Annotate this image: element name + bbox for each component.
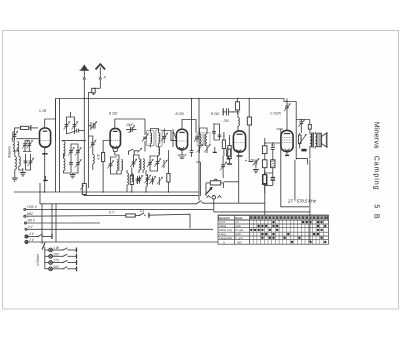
title Minerva Camping 5 B — [372, 122, 379, 219]
potentiometer P1 (volume) — [206, 179, 224, 185]
wire mid det — [206, 183, 224, 188]
trimmer C28 (top right) — [284, 102, 290, 113]
capacitor C29 (tone, trimmer) — [298, 120, 304, 129]
svg-text:270: 270 — [52, 259, 59, 263]
ground G4 — [180, 157, 185, 159]
speaker LS — [317, 133, 328, 147]
wire cluster B top nets — [67, 112, 77, 134]
svg-text:10pF: 10pF — [126, 123, 134, 127]
svg-text:B 255: B 255 — [176, 112, 185, 116]
svg-text:200: 200 — [52, 252, 59, 256]
wire second drop — [59, 99, 61, 193]
resistor R17 (cathode) — [227, 149, 231, 159]
node bus junctions — [84, 98, 239, 100]
capacitor C19 — [190, 99, 194, 158]
wire mixer nets — [111, 151, 158, 174]
tube B262 output driver — [233, 131, 245, 152]
lamp row2 — [45, 252, 77, 258]
trimmer C1 — [12, 131, 18, 141]
wire speaker loop — [284, 99, 310, 243]
resistor R1 (grid stopper, horizontal) — [17, 125, 38, 131]
wire tube3 bottom — [178, 150, 187, 155]
coil T2 secondary — [158, 147, 159, 156]
wire left of tube5 — [277, 129, 310, 207]
trimmer C2 — [22, 141, 28, 150]
coil L13 — [131, 173, 133, 182]
wire grid line tube1 — [16, 138, 38, 140]
switch S1 on rail5 — [28, 234, 52, 239]
svg-text:250: 250 — [223, 119, 230, 123]
output transformer T4 — [310, 129, 317, 159]
trimmer C10 — [75, 147, 81, 156]
resistor R5 — [222, 136, 225, 156]
tube B262 (mixer) — [110, 128, 120, 151]
node mid junctions — [44, 101, 302, 196]
trimmer C17 — [147, 159, 153, 167]
wire mid connector — [265, 168, 273, 177]
capacitor C11 — [69, 159, 73, 168]
wire det net — [200, 124, 230, 140]
wire drops x52 x56 — [52, 204, 56, 242]
trimmer C7 — [72, 121, 78, 130]
coil L12 — [127, 170, 129, 192]
trimmer C13 — [90, 139, 96, 149]
svg-text:U-Röhre: U-Röhre — [36, 254, 40, 266]
capacitor C30 — [136, 176, 140, 184]
knob bar — [301, 149, 306, 152]
trimmer C18b — [162, 160, 168, 168]
switch S3 on rail2 — [135, 209, 149, 218]
resistor R3 (below tube2 left) — [102, 141, 111, 193]
coil L1 — [13, 137, 15, 151]
svg-text:Antenne: Antenne — [8, 146, 12, 159]
tube B255 (IF amp) — [176, 129, 187, 149]
node 2V terminal — [25, 238, 35, 244]
ground G1 — [20, 168, 26, 176]
wire tube2 top to grid cap — [115, 119, 145, 152]
svg-text:A: A — [103, 76, 106, 80]
trimmer C33 — [161, 133, 167, 143]
switch S2 on line A — [196, 201, 204, 205]
coil L8 L9 (osc pair) — [117, 160, 123, 171]
svg-text:Langwelle: Langwelle — [219, 236, 232, 240]
resistor R18 (on gang line) — [80, 184, 199, 196]
trimmer C25 (50) — [249, 158, 260, 168]
diode chain components — [218, 132, 222, 140]
coil L2 — [17, 142, 19, 152]
wire input net — [13, 128, 32, 178]
switch bank lever — [42, 242, 45, 250]
resistor R11 — [262, 160, 267, 168]
resistor R12 (hatched) — [271, 160, 275, 168]
table dots — [250, 221, 326, 243]
capacitor C23 — [212, 129, 216, 136]
svg-text:500: 500 — [53, 265, 59, 269]
capacitor C26 (0,1) — [271, 143, 276, 159]
coil L10 — [146, 170, 147, 192]
trimmer C22 — [204, 145, 210, 153]
trimmer C12 — [88, 122, 96, 130]
ground G6 — [253, 170, 259, 173]
trimmer C15 (osc padder) — [107, 161, 113, 169]
capacitor C4 — [24, 157, 28, 167]
trimmer C19b — [136, 175, 142, 183]
wire tube3 top — [173, 120, 196, 148]
wire line B (above table) — [214, 211, 310, 213]
node -88V terminal — [25, 219, 36, 224]
svg-text:27 - 578,5 kHz: 27 - 578,5 kHz — [287, 199, 317, 204]
node +100V terminal — [24, 205, 38, 211]
svg-text:B 262: B 262 — [109, 112, 118, 116]
wire tube5 bottom — [286, 152, 288, 155]
svg-text:A: A — [223, 240, 225, 244]
resistor R4 — [130, 168, 133, 193]
trimmer C18 — [154, 159, 160, 168]
lamp row3 — [45, 259, 77, 266]
svg-text:B 262: B 262 — [211, 112, 220, 116]
wire bus left drop — [55, 99, 57, 193]
resistor R16 on rail2 — [126, 214, 136, 217]
coil L6 — [64, 157, 66, 171]
wire tube4 bottom — [238, 152, 240, 203]
trimmer C6 — [64, 121, 70, 130]
svg-text:ABC: ABC — [26, 212, 34, 216]
wire rail1 — [26, 208, 213, 210]
coil L5 (osc) — [64, 142, 66, 157]
svg-text:Camping: Camping — [372, 156, 379, 190]
wire tone net — [296, 120, 310, 134]
svg-text:400: 400 — [237, 240, 242, 244]
table frame — [218, 215, 329, 244]
coil L11 (zigzag grid) — [238, 113, 239, 131]
svg-text:0,1: 0,1 — [271, 143, 276, 147]
capacitor C32 near tube1 bottom — [43, 176, 47, 181]
resistor R8 (plate load above tube4) — [235, 99, 239, 113]
wire AVC corner — [196, 162, 200, 196]
lamp row4 — [45, 265, 77, 272]
coil L3 — [15, 151, 17, 169]
svg-text:2 V: 2 V — [28, 238, 35, 242]
capacitor C8 — [77, 129, 85, 133]
coil pair L9b — [139, 159, 144, 170]
capacitor C24 (coupling) — [223, 108, 240, 123]
trimmer C11b — [75, 159, 81, 168]
trimmer C3 — [26, 141, 32, 150]
resistor R15b — [262, 175, 267, 203]
coil L7 — [93, 149, 101, 170]
wire top bus — [56, 98, 285, 100]
svg-text:4,7k: 4,7k — [97, 154, 101, 160]
svg-text:0,1: 0,1 — [140, 209, 145, 213]
wire osc net — [88, 136, 92, 139]
wire rail4 — [27, 228, 213, 230]
switch row S4 — [128, 148, 141, 152]
capacitor C34 — [213, 147, 217, 152]
table column grid — [253, 215, 323, 244]
ground G3 — [70, 173, 76, 178]
wire tube4 plate net — [237, 99, 249, 118]
wire rail6 — [28, 241, 217, 243]
wire step to tube3 — [162, 131, 176, 141]
lamp row1 — [45, 246, 77, 253]
wire line A (to table) — [40, 183, 265, 244]
svg-text:L. grü: L. grü — [235, 236, 243, 240]
trimmer C19c — [149, 176, 155, 184]
wire tube1 top — [45, 119, 56, 128]
trimmer C20 — [194, 134, 200, 142]
wire mid horizontals — [14, 191, 199, 193]
wire IF nets — [150, 129, 164, 148]
svg-text:+100 V: +100 V — [27, 205, 38, 209]
svg-text:5 B: 5 B — [372, 204, 379, 219]
resistor R2 (diagonal) — [142, 134, 148, 142]
volume arrow — [206, 188, 212, 195]
antenna A2 (right, chevron) — [96, 64, 106, 88]
node 4V lamp terminal — [25, 232, 35, 238]
potentiometer P2 (feedback) — [298, 133, 306, 149]
trimmer C19d — [157, 177, 163, 185]
wire tube1 bottom — [44, 147, 46, 192]
IF transformer T2 — [156, 130, 162, 146]
wire osc bar — [56, 99, 87, 142]
trimmer C16 — [130, 159, 136, 168]
svg-text:U 2B: U 2B — [39, 109, 47, 113]
wire plate link tube4-tube5 — [265, 138, 281, 147]
resistor R6 — [227, 139, 232, 164]
coil L4 — [19, 157, 21, 167]
resistor R7 (below, AVC) — [220, 156, 227, 178]
antenna A1 (left, triangle) — [80, 65, 90, 184]
phono jack J2 — [207, 196, 222, 212]
trimmer C31 — [145, 174, 151, 184]
svg-text:-88 V: -88 V — [27, 219, 35, 223]
capacitor C14 (10pF) — [126, 123, 137, 133]
tube C202N output — [281, 130, 293, 151]
resistor R15 vertical right — [263, 170, 266, 193]
wire rail2 — [26, 214, 190, 228]
resistor R14 — [167, 150, 170, 192]
resistor R13 — [308, 120, 311, 130]
node 0V terminal — [25, 225, 33, 230]
trimmer C9 — [68, 147, 74, 156]
trimmer C21 — [197, 145, 203, 153]
antenna jack J1 — [92, 88, 101, 95]
table header texts — [219, 216, 244, 245]
svg-text:Minerva: Minerva — [372, 122, 379, 148]
table header tick marks — [250, 216, 328, 219]
resistor R9 — [247, 117, 251, 133]
svg-text:C 202N: C 202N — [270, 112, 282, 116]
IF transformer T1 — [147, 130, 154, 145]
node ABC terminal — [24, 212, 34, 217]
capacitor C27 (electrolytic) — [265, 178, 275, 186]
trimmer C5 — [28, 157, 34, 167]
wire mid verticals — [199, 99, 295, 201]
resistor R10 — [262, 146, 267, 160]
wire cluster B nets — [64, 144, 79, 173]
IF transformer T3 — [197, 133, 210, 146]
svg-text:E.T.: E.T. — [109, 211, 115, 215]
wire switchbank spine — [44, 247, 46, 269]
ground G2 — [12, 178, 18, 181]
wire rail3 — [27, 222, 101, 224]
svg-text:1 W: 1 W — [53, 246, 60, 250]
wire tube5 top — [286, 99, 288, 131]
wire antenna to bus — [88, 93, 91, 188]
tube U2B — [40, 128, 51, 148]
